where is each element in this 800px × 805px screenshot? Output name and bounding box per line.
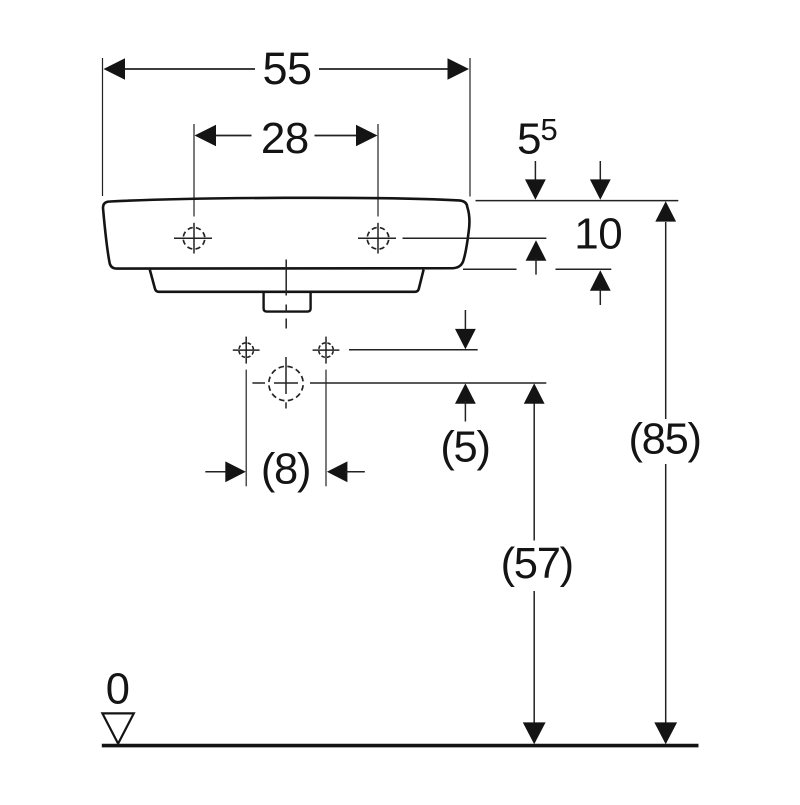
dimension 28 line left segment — [213, 135, 252, 137]
svg-text:28: 28 — [261, 114, 309, 163]
svg-text:0: 0 — [106, 666, 130, 714]
dimension (57) up arrowhead — [524, 383, 545, 403]
small fixing hole left — [239, 343, 254, 358]
dimension (5) down arrow — [464, 310, 466, 332]
dimension 10 up arrow — [590, 270, 611, 290]
svg-text:5: 5 — [541, 112, 558, 147]
svg-text:55: 55 — [262, 43, 311, 94]
svg-text:(5): (5) — [440, 424, 489, 472]
washbasin outline — [103, 198, 470, 269]
svg-text:10: 10 — [574, 210, 622, 259]
dimension (85) vertical line upper — [665, 222, 667, 419]
svg-text:5: 5 — [517, 115, 541, 164]
reference line C (basin bottom level) left segment — [463, 268, 517, 270]
floor line — [102, 744, 699, 748]
dimension 28 line right segment — [315, 135, 360, 137]
dimension (57) vertical line upper — [533, 403, 535, 541]
hole reference line (y=350) — [349, 349, 478, 351]
dimension (8) left arrow — [205, 471, 228, 473]
dimension (8) extension line left — [245, 370, 247, 487]
dimension 55 line right segment — [319, 68, 452, 70]
dimension 10 down arrow — [599, 161, 601, 182]
drain box — [264, 292, 311, 312]
dimension (5) up arrow — [455, 383, 476, 403]
reference line B (faucet hole level) — [403, 237, 547, 239]
trap reference line (y=383) segment 3 — [310, 382, 546, 384]
waste pipe vertical centerline — [285, 357, 287, 394]
faucet hole left: cross horizontal — [174, 237, 212, 239]
dimension 28 arrowhead left — [195, 125, 217, 146]
waste pipe circle (dashed) — [269, 366, 303, 400]
dimension (57) down arrowhead — [523, 722, 546, 744]
drain centerline (dashed) — [285, 260, 287, 296]
svg-text:(8): (8) — [261, 446, 310, 494]
dimension 55 extension line right — [469, 58, 471, 197]
dimension 28 extension line left — [193, 124, 195, 217]
faucet hole right: dashed circle — [367, 228, 389, 250]
dimension (85) down arrowhead — [654, 722, 677, 744]
reference line C (basin bottom level) right segment — [556, 268, 612, 270]
trap reference line (y=383) segment 1 — [252, 382, 265, 384]
trap reference line (y=383) segment 2 — [274, 382, 298, 384]
dimension 55 arrowhead right — [448, 58, 470, 79]
washbasin lower step — [150, 270, 424, 292]
svg-text:(85): (85) — [629, 415, 701, 463]
dimension 5.5 down arrow — [534, 161, 536, 182]
reference line A (basin top level) — [476, 200, 679, 202]
datum zero triangle — [102, 713, 133, 743]
dimension 5.5 up arrow — [526, 240, 547, 260]
dimension 28 arrowhead right — [356, 125, 378, 146]
faucet hole right: cross vertical — [377, 223, 379, 254]
faucet hole right: cross horizontal — [358, 237, 396, 239]
dimension (8) extension line right — [325, 370, 327, 487]
dimension 55 line left segment — [121, 68, 255, 70]
dimension 55 extension line left — [102, 58, 104, 196]
dimension 55 arrowhead left — [104, 58, 126, 79]
dimension 28 extension line right — [377, 124, 379, 217]
dimension (57) vertical line lower — [533, 591, 535, 723]
dimension (85) vertical line lower — [665, 464, 667, 723]
dimension (8) right arrow — [327, 461, 348, 482]
faucet hole left: dashed circle — [183, 228, 205, 250]
small fixing hole right — [319, 343, 334, 358]
svg-text:(57): (57) — [501, 540, 573, 588]
faucet hole left: cross vertical — [193, 223, 195, 254]
dimension (85) up arrowhead — [655, 201, 676, 221]
